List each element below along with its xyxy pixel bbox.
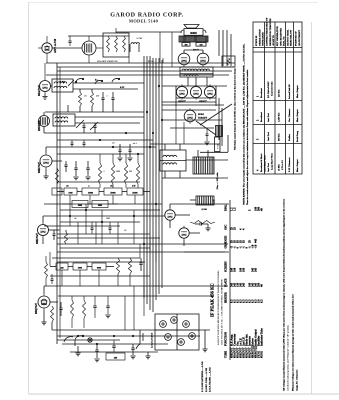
wire res row links <box>57 191 64 193</box>
wire mid horiz 1 <box>150 143 220 145</box>
svg-text:1.75 to 5.5: 1.75 to 5.5 <box>282 159 284 170</box>
svg-text:250: 250 <box>96 96 99 98</box>
capacitor C7 <box>86 167 89 169</box>
capacitor C21 <box>83 142 86 144</box>
wire bottom runs <box>57 335 200 337</box>
svg-text:100: 100 <box>234 267 237 272</box>
svg-text:00000: 00000 <box>190 32 197 35</box>
svg-text:WAVE BAND: WAVE BAND <box>262 32 265 46</box>
wire mid bus a <box>44 132 144 134</box>
svg-text:ON-OFF SWITCH: ON-OFF SWITCH <box>97 60 117 63</box>
pilot lamp <box>88 338 92 342</box>
wire T2 stubs <box>164 144 166 150</box>
label 500 box <box>182 43 190 47</box>
svg-text:445: 445 <box>255 238 258 243</box>
wire ladder 2 <box>60 247 150 249</box>
wire mid bus c <box>46 146 156 148</box>
wire V12 stubs <box>42 216 44 223</box>
wire tap r2 <box>162 104 224 106</box>
wire tap r4 <box>186 159 228 161</box>
svg-text:Ant. Post: Ant. Post <box>267 132 270 141</box>
capacitor C22 <box>112 345 115 347</box>
alignment table column lines <box>264 22 266 174</box>
svg-text:L1 LOOP ANTENNA — A-740: L1 LOOP ANTENNA — A-740 <box>201 361 204 392</box>
svg-text:Television sound channels 44 t: Television sound channels 44 to 50 MC ar… <box>234 68 237 150</box>
wire right stubs <box>218 98 220 140</box>
small coil top <box>131 43 139 44</box>
tube V11 inverter <box>179 228 189 238</box>
cap C11 <box>53 233 56 235</box>
svg-text:1st and 2nd I.F.: 1st and 2nd I.F. <box>289 84 291 99</box>
resistor R7 <box>124 163 127 184</box>
svg-text:IF PEAK 456 KC: IF PEAK 456 KC <box>210 283 215 317</box>
svg-text:500: 500 <box>185 44 188 46</box>
socket wires <box>155 329 199 331</box>
wire mid bus i <box>57 251 225 253</box>
resistor R13 <box>190 221 215 224</box>
label 100 box <box>196 43 206 47</box>
svg-text:Max. Output: Max. Output <box>297 85 299 98</box>
wire ladder verticals <box>149 238 151 252</box>
resistor R5 <box>98 163 101 184</box>
wire ladder 1 <box>57 237 160 239</box>
ground bottom 3 <box>145 355 150 357</box>
wire lower verticals <box>49 252 51 266</box>
svg-text:L1 L2 L3 C4 C5: L1 L2 L3 C4 C5 <box>152 332 154 348</box>
svg-text:0000: 0000 <box>98 205 102 207</box>
svg-text:ANT. A-740: ANT. A-740 <box>54 38 57 53</box>
padder trimmer <box>82 125 85 127</box>
socket layout box <box>155 314 199 350</box>
svg-text:.05 MF TO: .05 MF TO <box>272 35 275 46</box>
svg-text:.05: .05 <box>124 230 126 232</box>
svg-text:6U5G: 6U5G <box>198 113 204 116</box>
wire top link <box>116 31 181 33</box>
svg-text:50M: 50M <box>116 171 120 173</box>
svg-text:OSC: OSC <box>225 225 228 230</box>
ground bottom 4 <box>202 348 207 350</box>
capacitor C9 <box>129 149 132 151</box>
speaker field coil <box>179 36 208 42</box>
speaker SP1 cone <box>184 25 199 29</box>
svg-text:15 MC: 15 MC <box>278 164 281 171</box>
svg-text:TUBE: TUBE <box>225 351 228 358</box>
ground mid det <box>205 227 210 229</box>
svg-text:Ant. Post: Ant. Post <box>267 113 270 122</box>
ballast box <box>216 126 223 137</box>
svg-text:A-742: A-742 <box>136 37 143 40</box>
svg-text:MODEL 5140: MODEL 5140 <box>129 18 159 23</box>
wire V3 stubs <box>45 147 47 153</box>
wire low verticals <box>124 296 126 330</box>
ground bottom 1 <box>75 352 80 354</box>
resistor R27 <box>45 262 48 278</box>
svg-text:10M: 10M <box>106 218 110 220</box>
filter choke CH1 <box>222 56 235 67</box>
resistor R10 box <box>82 188 99 195</box>
wire mid web 3 <box>57 233 150 235</box>
svg-text:600 KC: 600 KC <box>278 133 281 141</box>
svg-text:Broadcast: Broadcast <box>261 88 263 98</box>
resistor R8 <box>136 163 139 184</box>
wire top bus 1 <box>46 62 235 64</box>
svg-text:.1: .1 <box>103 171 105 173</box>
svg-text:245: 245 <box>243 282 246 287</box>
svg-text:245: 245 <box>255 267 258 272</box>
svg-text:0000: 0000 <box>78 205 82 207</box>
wire bottom extra <box>50 275 150 277</box>
svg-text:.05: .05 <box>112 143 115 145</box>
svg-text:Padder: Padder <box>289 134 291 141</box>
socket S6 <box>189 333 196 340</box>
alignment table frame <box>253 22 302 174</box>
wire can1 stub <box>43 127 45 134</box>
capacitor C20 <box>71 142 74 144</box>
capacitor C17 <box>131 347 134 349</box>
resistor R24 box <box>52 188 62 195</box>
wire second row <box>62 203 72 205</box>
osc padder can <box>39 116 50 127</box>
resistor R19 <box>128 258 131 274</box>
svg-text:Tune in a weak station and adj: Tune in a weak station and adjust the wa… <box>246 69 249 205</box>
magic eye tube 6U5 <box>184 110 196 122</box>
capacitor C23 <box>206 133 209 135</box>
resistor R25 box <box>72 201 88 208</box>
svg-text:TARGET: TARGET <box>198 117 208 120</box>
2nd det tube V10 <box>165 210 175 220</box>
wire row under V2 <box>45 111 144 113</box>
capacitor C6 <box>74 167 77 169</box>
wire gang riser <box>115 28 117 33</box>
osc coil box A-743 <box>53 114 75 126</box>
wire tap r5 <box>170 203 229 205</box>
junction dots bus <box>146 111 147 112</box>
svg-text:range AC voltmeter.: range AC voltmeter. <box>296 369 299 391</box>
resistor R11 box <box>104 188 122 195</box>
cap C14 <box>93 305 96 307</box>
socket S1 <box>160 321 167 328</box>
svg-text:6SK7GT: 6SK7GT <box>35 233 39 244</box>
svg-text:.02: .02 <box>66 186 69 188</box>
wire bus drops <box>128 57 130 63</box>
resistor R26 box <box>92 201 108 208</box>
converter tube V2 6SA7 <box>40 81 51 92</box>
wire mid bus d <box>57 153 144 155</box>
iF amp tube V3 6SK7 <box>40 155 52 167</box>
wire tap r7 <box>150 295 214 297</box>
svg-text:WAVE BANDS: The wave bands cov: WAVE BANDS: The wave bands covered by th… <box>242 43 245 205</box>
ant coil can A-741 <box>52 79 73 92</box>
wire mid bus g <box>43 215 165 217</box>
wire right horiz low <box>214 285 228 287</box>
svg-text:100: 100 <box>243 267 246 272</box>
svg-text:50000: 50000 <box>110 192 115 194</box>
switch lever diagonals <box>76 120 84 128</box>
svg-text:LINE VOLTAGE 117 V. AC — VOLUM: LINE VOLTAGE 117 V. AC — VOLUME CONTROL … <box>221 280 224 345</box>
resistor R23 box <box>106 353 125 360</box>
socket S2 <box>171 317 178 324</box>
tube V8 6K6 <box>204 86 215 97</box>
wire drops under row <box>69 195 71 204</box>
wire mid web verticals <box>69 204 71 226</box>
wire antenna stub <box>46 36 48 41</box>
svg-text:Max. Output: Max. Output <box>297 109 299 122</box>
capacitor C18 <box>91 227 94 229</box>
svg-text:.1: .1 <box>106 96 108 98</box>
svg-text:Loop Short Wave: Loop Short Wave <box>272 153 274 170</box>
wire under res row <box>57 181 140 183</box>
resistor R6 <box>111 163 114 184</box>
svg-text:.05: .05 <box>84 96 87 98</box>
wire tap r6 <box>184 251 229 253</box>
wire bus low 2 <box>52 257 140 259</box>
svg-text:100: 100 <box>200 44 203 46</box>
ground cluster mid <box>117 157 122 159</box>
svg-text:Ant. Post: Ant. Post <box>267 163 270 172</box>
resistor R4 <box>56 168 59 184</box>
capacitor C10 <box>199 222 201 225</box>
wire mid bus j <box>44 285 214 287</box>
wire rectifier row <box>176 97 216 99</box>
capacitor C12 <box>139 262 142 264</box>
svg-text:SCREEN: SCREEN <box>225 261 228 272</box>
svg-text:6.3: 6.3 <box>261 299 264 303</box>
iF transformer T2 <box>160 150 186 171</box>
svg-text:Broadcast: Broadcast <box>261 112 263 122</box>
wire V10 links <box>169 204 171 208</box>
ground V9 <box>41 321 46 323</box>
svg-text:6SQ7GT: 6SQ7GT <box>34 303 38 314</box>
capacitor C19 <box>109 227 112 229</box>
volume control R20 <box>51 306 54 322</box>
output tube V4 6K6GT <box>178 53 190 65</box>
alignment table row lines <box>253 47 302 49</box>
band switch contacts <box>76 78 83 82</box>
wire tap r1 <box>162 85 227 87</box>
power plug <box>139 330 141 344</box>
iF transformer T1 small <box>196 196 214 205</box>
wire mid bus b <box>57 139 153 141</box>
tuning gang box <box>103 33 129 57</box>
svg-text:6U5G: 6U5G <box>261 350 264 358</box>
svg-text:1000: 1000 <box>68 192 72 194</box>
svg-text:I.F. Grid of 6SA7: I.F. Grid of 6SA7 <box>267 81 270 98</box>
wire bottom bus k <box>52 329 210 331</box>
wire output grid <box>183 50 185 53</box>
speaker output transformer <box>184 29 203 36</box>
output tube V5 6K6GT <box>197 53 209 65</box>
svg-text:Max. Output: Max. Output <box>297 159 299 172</box>
svg-text:A-741: A-741 <box>60 81 65 84</box>
wire antenna to osc <box>52 47 82 49</box>
svg-text:1.5: 1.5 <box>234 207 237 211</box>
capacitor C8 <box>119 149 122 151</box>
ground V2 cathode <box>42 96 47 98</box>
wire V2 plate riser <box>44 63 46 79</box>
wire mid bus h <box>57 243 228 245</box>
wire top bus 2 <box>57 66 235 68</box>
wire V9 stubs <box>43 286 45 294</box>
wire eye area <box>170 127 214 129</box>
wire mid web 2 <box>44 225 120 227</box>
det coil can <box>193 157 214 174</box>
svg-text:0000: 0000 <box>97 267 101 269</box>
tone cap C15 <box>106 305 109 307</box>
cathode resistor R3 <box>91 92 94 106</box>
socket S5 <box>178 339 185 346</box>
svg-text:ADJUSTMENT: ADJUSTMENT <box>298 30 301 46</box>
svg-text:-18: -18 <box>255 244 258 248</box>
wire diagonal to eye <box>200 104 232 125</box>
svg-text:SOCKET VOLTAGES MEASURED FROM: SOCKET VOLTAGES MEASURED FROM SOCKET PRO… <box>217 270 220 345</box>
resistor R16 box <box>73 263 87 270</box>
svg-text:10000: 10000 <box>88 192 93 194</box>
svg-text:A-746: A-746 <box>216 144 219 149</box>
svg-text:Converter tube: Converter tube <box>272 81 274 96</box>
capacitor C24 <box>51 278 54 280</box>
svg-text:A-744: A-744 <box>201 208 206 211</box>
cap C5 <box>64 164 67 166</box>
junction dots mid <box>69 215 70 216</box>
wire lower boundary <box>200 151 228 153</box>
resistor R21 <box>71 300 74 318</box>
svg-text:wave Short Wave: wave Short Wave <box>265 155 267 172</box>
screen resistor R2 <box>79 92 82 106</box>
wire top bus 3 <box>57 70 232 72</box>
socket S4 <box>165 334 172 341</box>
svg-text:L2 OSC. COIL — A-743: L2 OSC. COIL — A-743 <box>205 367 208 392</box>
svg-text:2 M: 2 M <box>132 186 136 188</box>
resistor R15 box <box>56 263 68 270</box>
tone switch SW2 <box>75 336 83 340</box>
wire top bus 4 <box>46 74 229 76</box>
svg-text:Indicator Tube: Indicator Tube <box>261 327 264 346</box>
ground bottom 2 <box>94 358 99 360</box>
svg-text:switch in broadcast position,: switch in broadcast position, and “Filam… <box>287 324 290 391</box>
svg-text:0000: 0000 <box>78 267 82 269</box>
svg-text:DIAL: DIAL <box>225 204 228 211</box>
resistor R22 <box>83 300 86 318</box>
det tube V9 6SQ7 <box>38 296 50 308</box>
svg-text:25000: 25000 <box>132 192 137 194</box>
wire right band 1 <box>218 30 220 56</box>
resistor R18 <box>116 258 119 274</box>
svg-text:Broadcast & Short-: Broadcast & Short- <box>261 153 263 172</box>
coil box A-746 <box>215 137 221 152</box>
wire audio row <box>58 295 150 297</box>
junction dots bottom <box>77 335 78 336</box>
switch arc SW3 <box>64 337 73 342</box>
bypass capacitor C4 <box>111 97 114 99</box>
svg-text:220: 220 <box>60 267 63 269</box>
svg-text:PLATE: PLATE <box>225 278 228 287</box>
svg-text:.1: .1 <box>88 186 90 188</box>
socket S3 <box>183 321 190 328</box>
svg-text:455 KC: 455 KC <box>278 89 281 97</box>
svg-text:Osc. Trimmer: Osc. Trimmer <box>289 109 291 122</box>
wire tap mid <box>60 221 140 223</box>
svg-text:a¢ 4: a¢ 4 <box>133 142 137 145</box>
svg-text:.05: .05 <box>110 186 113 188</box>
bypass capacitor C3 <box>101 97 104 99</box>
iF amp tube V12 <box>38 225 49 236</box>
coupling cap C13 <box>59 307 62 309</box>
resistor R12 box <box>127 188 143 195</box>
svg-text:HEATER: HEATER <box>225 292 228 303</box>
trimmer capacitor C1 <box>68 40 71 42</box>
rectifier tube V6 5Y3G <box>176 86 187 97</box>
svg-text:CATH: CATH <box>225 236 228 243</box>
wire ladder 3 <box>57 261 145 263</box>
resistor R14 <box>65 232 68 244</box>
svg-text:15m — 155 volts: 15m — 155 volts <box>216 172 219 189</box>
oscillator coil L2 <box>82 41 96 55</box>
junction dots upper <box>99 139 100 140</box>
padder trimmer 2 <box>93 125 96 127</box>
svg-text:2M: 2M <box>129 171 132 173</box>
wire mid web 1 <box>60 209 160 211</box>
wire chart divider <box>229 200 231 360</box>
output transformer T3 <box>180 67 213 77</box>
svg-text:FUNCTION: FUNCTION <box>225 332 228 346</box>
wire under rect row <box>162 101 216 103</box>
svg-text:All voltages except filament m: All voltages except filament measured wi… <box>283 198 286 391</box>
svg-text:.02: .02 <box>74 218 76 220</box>
ground V3 <box>43 175 48 177</box>
svg-text:DIAL: DIAL <box>148 60 155 63</box>
svg-text:S.W. Trimmers: S.W. Trimmers <box>289 157 291 172</box>
svg-text:DIAL TO: DIAL TO <box>283 36 286 46</box>
wire mid horiz 2 <box>162 177 228 179</box>
capacitor C16 <box>95 349 98 351</box>
wire tap r3 <box>162 119 222 121</box>
wire left rail <box>56 63 58 344</box>
svg-text:Rock Gang: Rock Gang <box>296 130 299 142</box>
rf amp tube V1 6SK7 <box>42 43 52 53</box>
svg-text:L3 I.F. TRANS. — A-744: L3 I.F. TRANS. — A-744 <box>209 367 212 392</box>
svg-text:1,500 KC: 1,500 KC <box>278 112 281 122</box>
tube V7 6X5 <box>190 86 201 97</box>
wire lower row links <box>50 266 56 268</box>
svg-text:MERS BELOW: MERS BELOW <box>290 29 293 46</box>
svg-text:6SA7GT: 6SA7GT <box>37 85 41 96</box>
wire center bus <box>143 56 145 298</box>
svg-text:Filament voltages are taken ac: Filament voltages are taken across filam… <box>292 294 295 391</box>
resistor R17 box <box>92 263 106 270</box>
resistor R9 box <box>64 188 77 195</box>
